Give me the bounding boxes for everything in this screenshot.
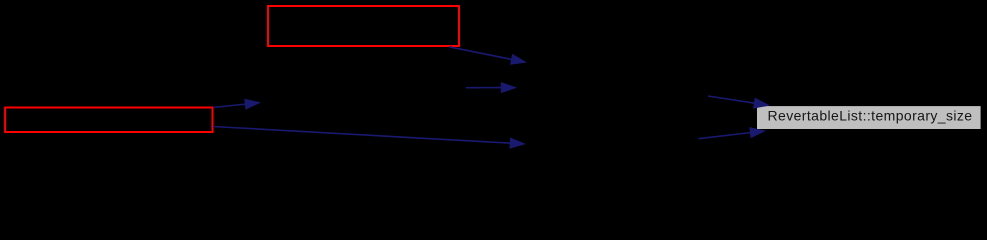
node: top red box (caller, label invisible) — [268, 6, 459, 46]
edge A: top red box -> hidden middle node — [449, 47, 527, 65]
edge G: hidden middle node -> gray node (lower) — [699, 127, 767, 139]
svg-text:RevertableList::temporary_size: RevertableList::temporary_size — [768, 108, 973, 124]
node: left red box (caller, label invisible) — [5, 108, 212, 133]
edge C: left red box -> hidden middle node (long bottom) — [213, 127, 526, 149]
edge B: left red box -> hidden middle node (short) — [213, 99, 261, 110]
edge F: hidden middle node -> gray node (upper) — [708, 96, 770, 109]
edge D: hidden node -> hidden node (short horizontal) — [466, 82, 517, 93]
node: RevertableList::temporary_size (gray filled) — [757, 106, 981, 129]
